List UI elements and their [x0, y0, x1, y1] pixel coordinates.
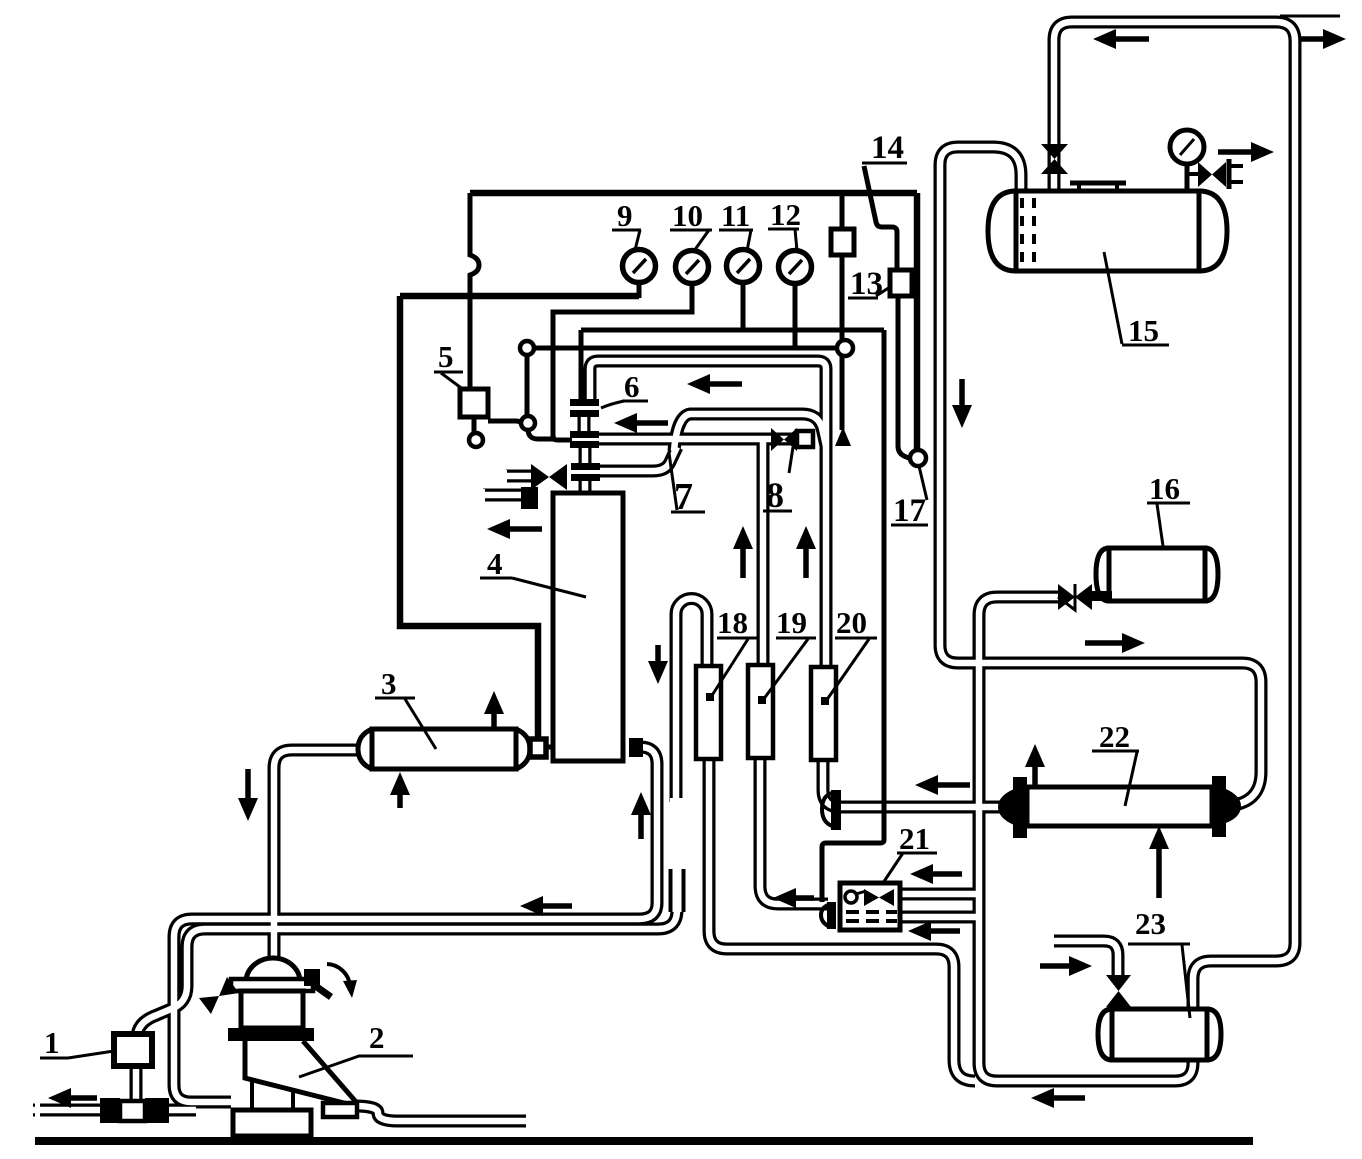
svg-text:12: 12	[770, 197, 801, 232]
svg-text:9: 9	[617, 198, 633, 233]
svg-text:8: 8	[766, 475, 784, 515]
svg-text:20: 20	[836, 605, 867, 640]
svg-text:2: 2	[369, 1020, 385, 1055]
svg-text:4: 4	[487, 546, 503, 581]
svg-text:10: 10	[672, 198, 703, 233]
svg-text:18: 18	[717, 605, 748, 640]
svg-text:11: 11	[721, 198, 750, 233]
svg-text:5: 5	[438, 339, 454, 374]
svg-text:23: 23	[1135, 906, 1166, 941]
svg-text:22: 22	[1099, 719, 1130, 754]
svg-text:16: 16	[1149, 471, 1180, 506]
svg-text:3: 3	[381, 666, 397, 701]
svg-text:14: 14	[871, 130, 904, 166]
svg-text:15: 15	[1128, 313, 1159, 348]
svg-text:1: 1	[44, 1025, 60, 1060]
svg-text:21: 21	[899, 821, 930, 856]
svg-text:19: 19	[776, 605, 807, 640]
svg-text:6: 6	[624, 369, 640, 404]
